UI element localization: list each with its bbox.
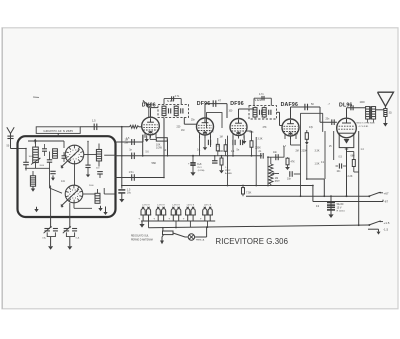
svg-text:10n: 10n [273,151,278,154]
wire x333 drop [333,131,335,160]
svg-text:GRUPPO AF N 2685: GRUPPO AF N 2685 [43,129,73,133]
label C16 values [337,203,346,212]
svg-text:13: 13 [316,204,320,208]
svg-text:56K: 56K [152,161,157,165]
svg-text:+: + [168,216,170,220]
wire filament bus [115,155,263,157]
resistor R10 [352,152,355,173]
wire U4 to det [267,156,269,186]
tube U2 pin stubs [200,133,211,138]
label B1 [142,204,150,206]
wire U2 pins drop [200,136,211,156]
svg-text:1M: 1M [220,137,223,139]
svg-text:1.5K: 1.5K [315,163,320,166]
resistor R11 [216,138,219,156]
ground inner b [34,207,38,212]
svg-text:+: + [153,216,155,220]
rheostat P2 [163,231,174,235]
label 3.3K u2 [209,132,214,134]
svg-text:+: + [200,216,202,220]
wire antenna inner [18,148,27,163]
wire DL96 plate [347,108,366,119]
svg-text:5N1P: 5N1P [225,170,231,172]
label CV1 CV2 [42,237,80,240]
svg-text:L4TO 9: L4TO 9 [187,204,195,206]
label 1.4V [361,149,365,151]
battery cell B1 [138,207,151,221]
label T3 [389,113,392,115]
battery cell B2 [153,207,166,221]
wire T2 in [239,109,255,119]
ground battery [139,221,144,228]
label 25n u2 [191,120,196,122]
svg-text:A.GRE: A.GRE [225,172,232,175]
wire label stub [57,133,59,136]
wire drop x227 [227,136,229,187]
label 2.2K dl [348,175,353,178]
coil L2 [30,171,35,186]
label 10M [294,133,299,136]
DL96 skirt [339,133,354,151]
arrow box top inner [33,139,37,144]
wire T1 drop [167,139,169,156]
capacitor C15 [279,171,292,180]
svg-text:L4TO 9: L4TO 9 [142,204,150,206]
wire antenna coupling [80,126,129,128]
svg-text:15 V: 15 V [337,206,342,209]
capacitor C11 1.5n [129,171,135,181]
tube DL96 U5 [337,118,357,138]
speck [33,96,39,99]
svg-text:PERILLA: PERILLA [196,239,205,242]
svg-text:RICEVITORE G.306: RICEVITORE G.306 [216,237,289,246]
label R7 [315,163,320,166]
label P1 [275,177,280,183]
switch SW2 [368,221,383,227]
svg-text:1.5n: 1.5n [129,171,134,174]
label 141 [61,181,66,183]
wire T2 out [277,112,283,125]
load coil LS [383,109,388,127]
label regolato [131,235,153,242]
battery cell B5 [200,207,213,221]
wire U3 drop [232,136,234,157]
wire grid bias [115,177,165,179]
label 1M u2 [220,137,223,139]
svg-text:100K: 100K [218,150,224,153]
wire U2 plate [205,104,227,118]
wire U4 cathode [291,136,301,196]
tube U4 pin stubs [285,134,296,139]
label DAF96 [281,102,298,108]
label 500 [96,168,100,170]
wire C15 link [294,173,301,175]
label 10000a [40,165,45,167]
svg-text:7.5K: 7.5K [246,190,252,194]
capacitor C-in1 [42,144,47,156]
capacitor C19 [212,155,218,163]
wire minus line [313,200,383,202]
resistor R9 220K [250,137,253,157]
capacitor C47 [213,98,221,106]
DK96 top cap [143,100,151,117]
label 50 a [164,149,167,152]
label B5 [204,204,212,206]
resistor R5 47K [286,157,289,165]
IF transformer T1 [158,104,189,117]
wire R6 drop [306,130,308,179]
capacitor C14 [273,151,278,160]
capacitor C-daf-top [305,103,314,110]
label B2 [157,204,165,206]
label 3.3K b [258,138,263,141]
wire battery bus top [141,220,215,222]
coil L5 [95,189,100,203]
label R2 [156,144,162,150]
capacitor C-out [351,105,353,110]
junction dots buses [175,155,360,229]
wire trimmer feed 1 [50,186,52,218]
svg-text:47K: 47K [291,160,296,163]
label 0.5 dl [339,156,343,159]
svg-text:1,5: 1,5 [92,119,96,123]
wire box top inner [28,140,64,142]
output transformer T3 [366,106,376,122]
resistor R12 [224,139,227,156]
resistor R4 7.5K [242,186,245,197]
wire U1 cathode drop [142,135,144,157]
switch SW1 [368,192,383,197]
wire x324 drop [307,179,325,196]
capacitor C10 [233,140,243,145]
wire antenna to box [11,139,18,149]
box GRUPPO AF N 2685 [18,136,116,217]
coil L4 [96,144,101,167]
label 2000b [89,185,94,187]
svg-text:3.3K: 3.3K [258,138,263,141]
wire osc out [115,135,144,142]
label 47K daf [263,127,268,129]
svg-text:L4TO 9: L4TO 9 [204,204,212,206]
label 0.1 dl [321,162,325,164]
label DK96 [142,102,156,108]
tube DF96 U3 [230,119,247,136]
label R6 [302,150,320,153]
wire C3 to S1b [50,170,63,194]
capacitor C1 1n [94,124,97,131]
svg-text:2.2K: 2.2K [348,175,353,178]
label 100 u3 [229,111,234,113]
label DF96 U2 [197,101,211,107]
wire bus B2 y196 [246,195,369,197]
svg-text:MOD 5 OHM 8046: MOD 5 OHM 8046 [357,123,376,125]
wire det net [268,156,284,158]
svg-text:POT: POT [275,180,280,183]
wire T1 to DF96 grid [184,117,196,124]
potentiometer P1 1M [269,157,273,185]
label T3 data [357,123,376,128]
ground C12 [119,193,124,202]
label 25 dl [329,146,332,148]
label 50K u3 [250,132,255,134]
wire U5 screen drop [358,131,360,225]
wire x313 drop [312,186,314,202]
label 13 [316,204,320,208]
label T2 N421 [254,98,262,102]
svg-text:50K: 50K [250,132,255,134]
label 220 t1 [177,127,182,129]
rotary switch S1b [61,185,83,208]
label DL96 [339,102,353,108]
svg-text:47p: 47p [309,126,314,129]
arrow box bottom [103,207,107,216]
label 10000b [29,156,35,158]
antenna A1 [7,127,14,139]
label R5 [291,160,296,163]
svg-text:+: + [183,216,185,220]
label 4.7 u4 [283,146,287,148]
wire minus 1.5 [368,229,381,234]
wire U5 cathode drop [346,151,348,197]
label 1.1n [231,150,235,155]
wire bias riser [163,118,165,179]
capacitor C-in2 [62,152,67,162]
svg-text:-67: -67 [384,200,388,204]
wire grid feed [121,126,123,186]
resistor R2 10K [150,135,168,141]
wire to U3 grid [226,104,228,118]
svg-text:DF96: DF96 [230,101,244,107]
wire U2 cathode stub [204,135,206,141]
svg-text:REGOLATO SUL: REGOLATO SUL [131,235,149,238]
svg-text:10000: 10000 [29,156,35,158]
frame left edge shade [1,28,3,309]
IF transformer T2 [249,106,277,119]
ground U1 [145,135,149,142]
tube DAF96 U4 [282,119,299,136]
wire box right link [104,155,114,194]
svg-text:4.7n: 4.7n [175,95,180,98]
variable capacitor CV1 [44,217,58,250]
svg-text:(0.15A): (0.15A) [198,169,205,172]
capacitor C12 electrolytic [118,190,125,193]
svg-text:2M: 2M [296,151,299,153]
wire DK96 plate to T1 [151,108,159,118]
wire box inner h2 [74,203,92,209]
capacitor C16 50+50 [327,196,335,214]
svg-text:3.3K: 3.3K [315,150,320,153]
label R-grid [125,139,129,145]
label 220K [255,147,261,150]
variable capacitor CV2 [63,217,77,250]
label R8 a [225,167,232,175]
wire to DL96 grid [320,107,337,122]
label C12 [127,188,132,194]
choke R-grid squiggle [130,125,142,128]
wire DAF loop [301,113,323,145]
wire U4 drop A [255,137,257,186]
wire S1a out [84,154,97,155]
ground C16 [328,214,333,218]
label C-osc [126,137,130,140]
resistor R6 [305,133,309,145]
capacitor over T2 [259,93,264,100]
label +67 [384,191,389,195]
ground U3 [242,135,246,144]
svg-text:8+8: 8+8 [197,163,202,166]
label 680 [351,155,356,158]
svg-text:R 10011: R 10011 [337,211,346,213]
label B4 [187,204,195,206]
wire DAF plate top [291,107,321,119]
svg-text:4.7n: 4.7n [259,93,264,96]
svg-text:10n: 10n [287,178,292,181]
capacitor C-ant [7,136,13,138]
coil L1 [33,141,39,168]
capacitor C-dl-grid [326,104,335,126]
svg-text:4.7 4.9 B1: 4.7 4.9 B1 [359,126,370,128]
ground R5 [285,165,290,170]
label ant 50 [7,145,10,148]
ground R8 [219,170,224,173]
capacitor C5 [97,172,103,178]
wire dial lamp net [163,228,188,237]
wire bus B3 battery [149,225,369,228]
tube DK96 U1 [142,117,160,135]
wire S1b out [83,193,95,195]
svg-text:25 V: 25 V [197,167,202,169]
label DF96 U3 [230,101,244,107]
pot wiper [272,172,279,175]
capacitor C3 [47,152,52,170]
speaker LS1 [378,92,394,106]
ground L2 [31,186,35,191]
svg-text:L4TO 9: L4TO 9 [172,204,180,206]
capacitor C2 [23,162,29,170]
label -1.5 [383,227,389,231]
label B3 [172,204,180,206]
svg-text:PERNO D ANTENNA: PERNO D ANTENNA [131,238,153,241]
arrow minus fil [160,235,164,245]
wire C12 tap [121,185,123,189]
wire det to pot [284,146,291,157]
resistor R8 [220,155,223,170]
wire trimmer feed 2 [69,203,71,217]
svg-text:10M: 10M [294,133,299,136]
capacitor C6 [85,160,90,168]
label 47p [309,126,314,129]
ground L5 [98,206,102,211]
label T1 N421 [167,99,175,103]
wire box inner v1 [63,141,65,148]
svg-text:O.A.: O.A. [76,237,80,240]
label C13 [188,163,205,172]
svg-text:2W: 2W [125,142,129,145]
ground C6b [86,168,90,178]
label C1 [92,119,96,123]
wire r10 route [347,152,359,173]
label R4 [246,190,252,194]
capacitor C17 [259,150,264,159]
svg-text:47K: 47K [263,127,268,129]
wire T3 to speaker [376,106,386,110]
svg-text:+1.5: +1.5 [384,221,390,225]
svg-text:1000: 1000 [360,102,366,104]
wire T1 top caps [164,99,181,105]
svg-text:680: 680 [351,155,356,158]
svg-text:+: + [138,216,140,220]
capacitor C7 1n [129,148,134,159]
wire loop U2-U3 [207,113,223,128]
svg-text:L4TO 9: L4TO 9 [157,204,165,206]
svg-text:1/2W: 1/2W [156,147,162,150]
capacitor C4 [50,171,55,181]
svg-text:O.A.: O.A. [42,237,46,240]
capacitor C13 8+8 [190,155,195,173]
capacitor C9 [208,140,210,145]
label 100K [218,150,224,153]
svg-text:1M: 1M [181,129,184,132]
lamp LP1 [188,234,194,240]
wire lamp out [162,226,207,237]
label lamp [196,239,205,242]
label 5n [237,149,240,152]
label 1M a [181,129,184,132]
tube U1 pin stubs [145,133,156,138]
ground C13 [190,172,195,176]
tube U3 pin stubs [233,134,244,139]
label 0.1 [197,149,201,152]
battery cell B4 [183,207,196,221]
label +1.5 [384,221,390,225]
svg-text:+67: +67 [384,191,389,195]
wire battery link down [149,221,208,228]
wire out drop [324,131,326,179]
battery cell B3 [168,207,181,221]
capacitor C18 [336,163,347,173]
label -67 [384,200,388,204]
svg-text:3Ω: 3Ω [389,113,392,115]
label 2M u4 [296,151,299,153]
coil L3 [53,149,58,159]
svg-text:-1.5: -1.5 [383,227,389,231]
tube DF96 U2 [197,118,214,135]
label 25 b [216,145,219,148]
wire inner h3 [25,167,50,169]
label 1000 ot [360,102,366,104]
ground U2 [203,141,207,150]
wire box inner v2 [87,141,88,160]
wire T2 top caps [254,98,271,105]
title RICEVITORE G.306 [216,237,289,246]
wire switch link [74,164,76,185]
label plate GRUPPO AF N 2685 [36,127,80,134]
capacitor C-osc [132,139,135,145]
svg-text:3.3K: 3.3K [209,132,214,134]
label 56K [152,161,157,165]
wire bus B1 y185.5 [122,185,313,187]
label 5.6 dk [146,152,150,154]
rotary switch S1a [61,145,84,169]
capacitor over T1 [172,95,180,101]
trimmer arrow T-L1 [31,158,41,165]
wire U3 screen [247,131,252,137]
